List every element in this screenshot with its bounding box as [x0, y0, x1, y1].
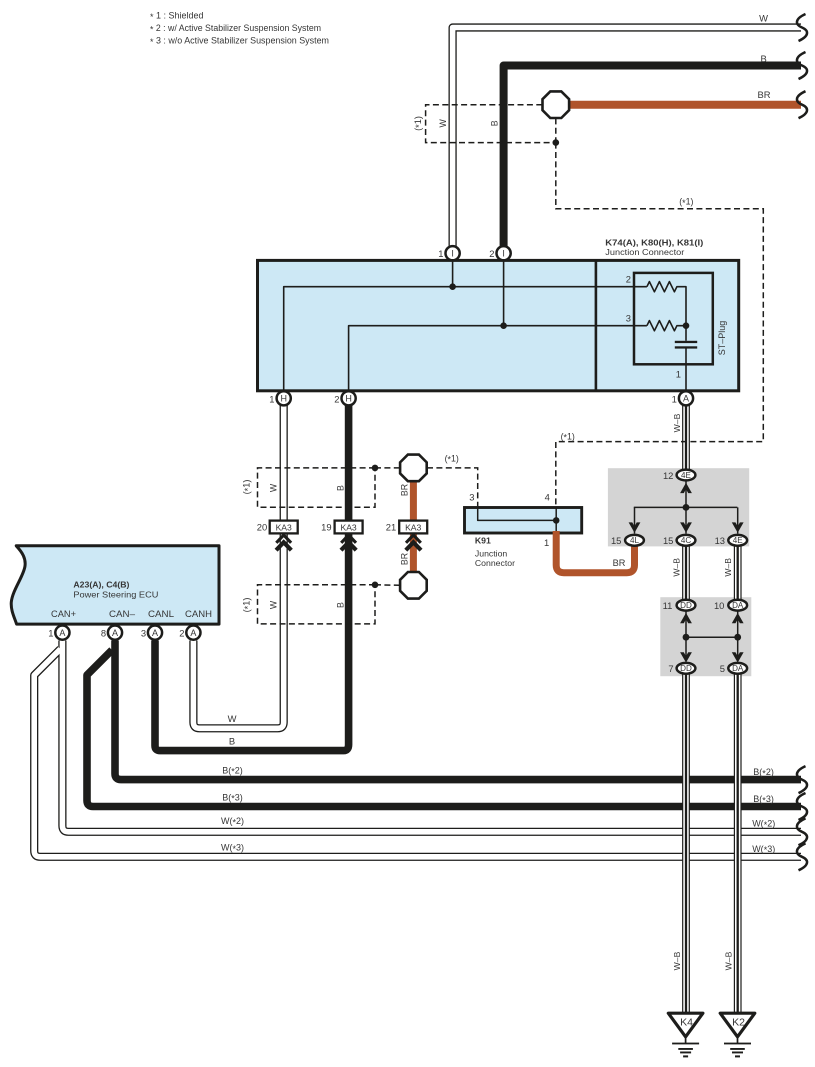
break mark BR — [797, 91, 807, 118]
svg-text:A: A — [190, 628, 196, 638]
svg-text:(*1): (*1) — [242, 598, 253, 613]
junction connector K74(A), K80(H), K81(I) box — [258, 260, 739, 390]
svg-text:4E: 4E — [733, 536, 744, 545]
junction dot shield mid2 — [372, 582, 379, 589]
svg-text:W: W — [438, 118, 448, 127]
junction dot shield top — [553, 139, 560, 146]
pin 2 H — [342, 391, 356, 405]
svg-text:W(*2): W(*2) — [221, 816, 244, 827]
pin 1 H — [277, 391, 291, 405]
svg-text:A: A — [683, 394, 689, 404]
svg-text:4C: 4C — [681, 536, 692, 545]
svg-text:KA3: KA3 — [340, 522, 356, 532]
svg-text:W(*3): W(*3) — [221, 843, 244, 854]
svg-text:BR: BR — [399, 553, 409, 565]
svg-text:CANL: CANL — [148, 609, 174, 619]
pin 8 A ECU — [108, 626, 122, 640]
svg-text:ST–Plug: ST–Plug — [717, 321, 727, 356]
connector 20 KA3 — [270, 521, 298, 534]
svg-text:20: 20 — [257, 521, 267, 532]
svg-text:(*1): (*1) — [445, 453, 459, 464]
svg-text:8: 8 — [101, 628, 106, 639]
svg-text:H: H — [280, 394, 287, 404]
svg-text:W–B: W–B — [672, 413, 682, 432]
svg-text:Junction Connector: Junction Connector — [605, 247, 684, 257]
svg-text:B: B — [336, 485, 346, 491]
svg-text:15: 15 — [611, 535, 621, 546]
resistor 2 — [647, 282, 686, 326]
svg-text:15: 15 — [663, 535, 673, 546]
svg-text:W–B: W–B — [723, 558, 733, 577]
break mark B*3 — [797, 793, 807, 820]
svg-text:KA3: KA3 — [405, 522, 421, 532]
junction block shading 2 — [660, 597, 751, 676]
wire BR shield vertical — [410, 478, 417, 575]
wire B CANL link — [155, 404, 349, 751]
svg-text:21: 21 — [386, 521, 396, 532]
wire W CAN+ to W*2 — [62, 641, 801, 832]
break mark W — [797, 14, 807, 41]
resistor 3 — [647, 321, 686, 331]
svg-text:BR: BR — [399, 484, 409, 496]
pin 2 A ECU — [186, 626, 200, 640]
wire inside K91 — [478, 508, 557, 521]
oval 15 4L — [625, 535, 644, 546]
junction dot ST-plug — [683, 322, 690, 329]
svg-text:1: 1 — [544, 537, 549, 548]
shield dashed link to octagon — [375, 467, 400, 469]
capacitor C1 bottom plate — [675, 346, 697, 348]
ground symbol K2 — [737, 1037, 739, 1044]
connector 21 KA3 — [399, 521, 427, 534]
svg-text:B(*2): B(*2) — [753, 767, 774, 778]
junction dot shield mid1 — [372, 465, 379, 472]
svg-text:(*1): (*1) — [679, 197, 693, 208]
svg-text:2: 2 — [489, 248, 494, 259]
wire to capacitor — [685, 326, 687, 341]
svg-text:3: 3 — [141, 628, 146, 639]
capacitor C1 top plate — [675, 341, 697, 343]
svg-text:B: B — [229, 735, 235, 746]
svg-text:B: B — [760, 53, 766, 64]
wire B CAN- to B*2 — [115, 641, 801, 780]
wire DD column — [685, 611, 687, 658]
svg-text:1: 1 — [438, 248, 443, 259]
wire W-B 4E to DA — [734, 545, 742, 600]
wire drop 4E13 — [737, 507, 739, 533]
wire pin1-I drop — [452, 254, 454, 287]
wire W-B to K4 — [682, 674, 690, 1014]
svg-text:B: B — [336, 602, 346, 608]
svg-text:K2: K2 — [732, 1017, 745, 1029]
wire capacitor to pin 1A — [685, 348, 687, 392]
wire W CANH link — [193, 404, 283, 728]
arrow up DD — [680, 613, 692, 623]
svg-text:CAN+: CAN+ — [51, 609, 76, 619]
bus line shield block — [634, 506, 738, 508]
shield dashed path right — [556, 143, 764, 508]
wire node W inside K74 — [284, 287, 647, 391]
svg-text:B(*3): B(*3) — [753, 794, 774, 805]
svg-text:W–B: W–B — [672, 951, 682, 970]
svg-text:A: A — [152, 628, 158, 638]
wire W-B pin1A to 4E — [682, 404, 690, 470]
junction connector K91 box — [465, 508, 582, 534]
connector chevrons 21 — [406, 535, 421, 543]
svg-text:B(*3): B(*3) — [222, 792, 243, 803]
oval 11 DD — [677, 600, 696, 611]
svg-text:H: H — [345, 394, 352, 404]
svg-text:12: 12 — [663, 470, 673, 481]
svg-text:W: W — [759, 13, 768, 24]
wire drop 4L — [634, 507, 636, 533]
svg-text:2: 2 — [334, 393, 339, 404]
svg-text:Power Steering ECU: Power Steering ECU — [73, 590, 158, 600]
shield dashed drop — [555, 118, 557, 142]
arrow down 4L — [629, 522, 641, 532]
power steering ECU box A23(A), C4(B) — [11, 546, 219, 624]
ST-Plug box — [634, 273, 713, 364]
oval 15 4C — [677, 535, 696, 546]
pin 3 A ECU — [148, 626, 162, 640]
arrow down 4E13 — [732, 522, 744, 532]
arrow up DA — [732, 613, 744, 623]
svg-text:* 3 : w/o Active Stabilizer Su: * 3 : w/o Active Stabilizer Suspension S… — [150, 36, 329, 48]
bus line ground link — [686, 636, 738, 638]
svg-text:1: 1 — [269, 393, 274, 404]
svg-text:CANH: CANH — [185, 609, 212, 619]
break mark W*2 — [797, 818, 807, 845]
svg-text:1: 1 — [48, 628, 53, 639]
wire DA column — [737, 611, 739, 658]
svg-text:4E: 4E — [681, 471, 692, 480]
break mark B — [797, 52, 807, 79]
svg-text:3: 3 — [469, 492, 474, 503]
pin 1 A ECU — [55, 626, 69, 640]
svg-text:I: I — [502, 248, 505, 258]
svg-text:BR: BR — [613, 558, 626, 568]
wire node B inside K74 — [349, 326, 647, 391]
svg-text:1: 1 — [672, 393, 677, 404]
arrow down DA — [732, 652, 744, 662]
svg-text:10: 10 — [714, 600, 724, 611]
svg-text:A: A — [112, 628, 118, 638]
arrow up 4E — [680, 483, 692, 493]
svg-text:11: 11 — [663, 600, 673, 611]
svg-text:W: W — [228, 713, 237, 724]
svg-text:(*1): (*1) — [242, 480, 253, 495]
shield dashed box middle 2 — [258, 585, 376, 624]
wire B top — [504, 66, 801, 251]
wire drop 4C — [685, 507, 687, 533]
svg-text:Connector: Connector — [475, 558, 515, 568]
svg-text:2: 2 — [626, 274, 631, 285]
svg-text:W: W — [269, 600, 279, 609]
oval 10 DA — [728, 600, 747, 611]
junction dot wire B — [500, 322, 507, 329]
svg-text:W(*2): W(*2) — [752, 819, 775, 830]
junction block shading 1 — [608, 468, 749, 546]
wire W-B to K2 — [734, 674, 742, 1014]
svg-text:B(*2): B(*2) — [222, 765, 243, 776]
wire BR top — [560, 101, 801, 109]
svg-text:W–B: W–B — [723, 951, 733, 970]
shield octagon top — [542, 91, 569, 118]
connector 19 KA3 — [335, 521, 363, 534]
shield octagon middle lower — [400, 572, 427, 599]
svg-text:* 1 : Shielded: * 1 : Shielded — [150, 10, 204, 22]
svg-text:W(*3): W(*3) — [752, 844, 775, 855]
pin 1 I — [446, 246, 460, 260]
svg-text:(*1): (*1) — [413, 116, 424, 131]
svg-text:* 2 : w/ Active Stabilizer Sus: * 2 : w/ Active Stabilizer Suspension Sy… — [150, 23, 321, 35]
svg-text:DD: DD — [680, 664, 692, 673]
svg-text:13: 13 — [715, 535, 725, 546]
svg-text:KA3: KA3 — [276, 522, 292, 532]
svg-text:4: 4 — [545, 492, 550, 503]
svg-text:K4: K4 — [680, 1017, 693, 1029]
svg-text:2: 2 — [179, 628, 184, 639]
svg-text:A23(A), C4(B): A23(A), C4(B) — [73, 579, 129, 589]
pin 2 I — [497, 246, 511, 260]
shield dashed box middle 1 — [258, 468, 376, 507]
svg-text:DD: DD — [680, 601, 692, 610]
svg-text:I: I — [451, 248, 454, 258]
junction dot K91 — [553, 517, 560, 524]
pin 1 A junction — [679, 391, 693, 405]
junction dot DD — [683, 634, 690, 641]
svg-text:DA: DA — [732, 601, 744, 610]
svg-text:CAN–: CAN– — [109, 609, 135, 619]
junction dot shield bus — [683, 504, 690, 511]
svg-text:19: 19 — [321, 521, 331, 532]
svg-text:BR: BR — [757, 89, 770, 100]
break mark B*2 — [797, 766, 807, 793]
svg-text:Junction: Junction — [475, 549, 508, 559]
K74 internal divider — [595, 260, 598, 390]
svg-text:DA: DA — [732, 664, 744, 673]
oval 12 4E — [677, 470, 696, 481]
svg-text:W: W — [269, 483, 279, 492]
junction dot wire A — [449, 283, 456, 290]
shield octagon middle upper — [400, 455, 427, 482]
svg-text:W–B: W–B — [672, 558, 682, 577]
svg-text:5: 5 — [720, 663, 725, 674]
wire W-B 4C to DD — [682, 545, 690, 600]
arrow down DD — [680, 652, 692, 662]
wire 4E to bus — [685, 481, 687, 508]
arrow down 4C — [680, 522, 692, 532]
svg-text:7: 7 — [668, 663, 673, 674]
svg-text:A: A — [59, 628, 65, 638]
ground symbol K4 — [685, 1037, 687, 1044]
svg-text:4L: 4L — [630, 536, 640, 545]
wire BR K91 to 4L — [556, 531, 634, 573]
wire pin2-I drop — [503, 254, 505, 326]
svg-text:1: 1 — [676, 369, 681, 380]
junction dot DA — [734, 634, 741, 641]
shield dashed octagon to K91 pin3 — [427, 468, 478, 507]
ground connector K4 triangle — [668, 1013, 703, 1037]
wire W top — [453, 28, 801, 251]
oval 5 DA — [728, 663, 747, 674]
oval 13 4E — [728, 535, 747, 546]
break mark W*3 — [797, 843, 807, 870]
wire B CAN- to B*3 — [87, 650, 801, 807]
oval 7 DD — [677, 663, 696, 674]
svg-text:(*1): (*1) — [561, 431, 575, 442]
svg-text:B: B — [489, 120, 499, 126]
connector chevrons 20 — [276, 535, 291, 543]
wire K91 pin4 drop — [555, 508, 557, 534]
shield dashed link to octagon 2 — [375, 584, 400, 587]
shield dashed box top — [426, 105, 556, 143]
svg-text:3: 3 — [626, 312, 631, 323]
svg-text:K91: K91 — [475, 536, 491, 546]
ground connector K2 triangle — [720, 1013, 755, 1037]
connector chevrons 19 — [341, 535, 356, 543]
